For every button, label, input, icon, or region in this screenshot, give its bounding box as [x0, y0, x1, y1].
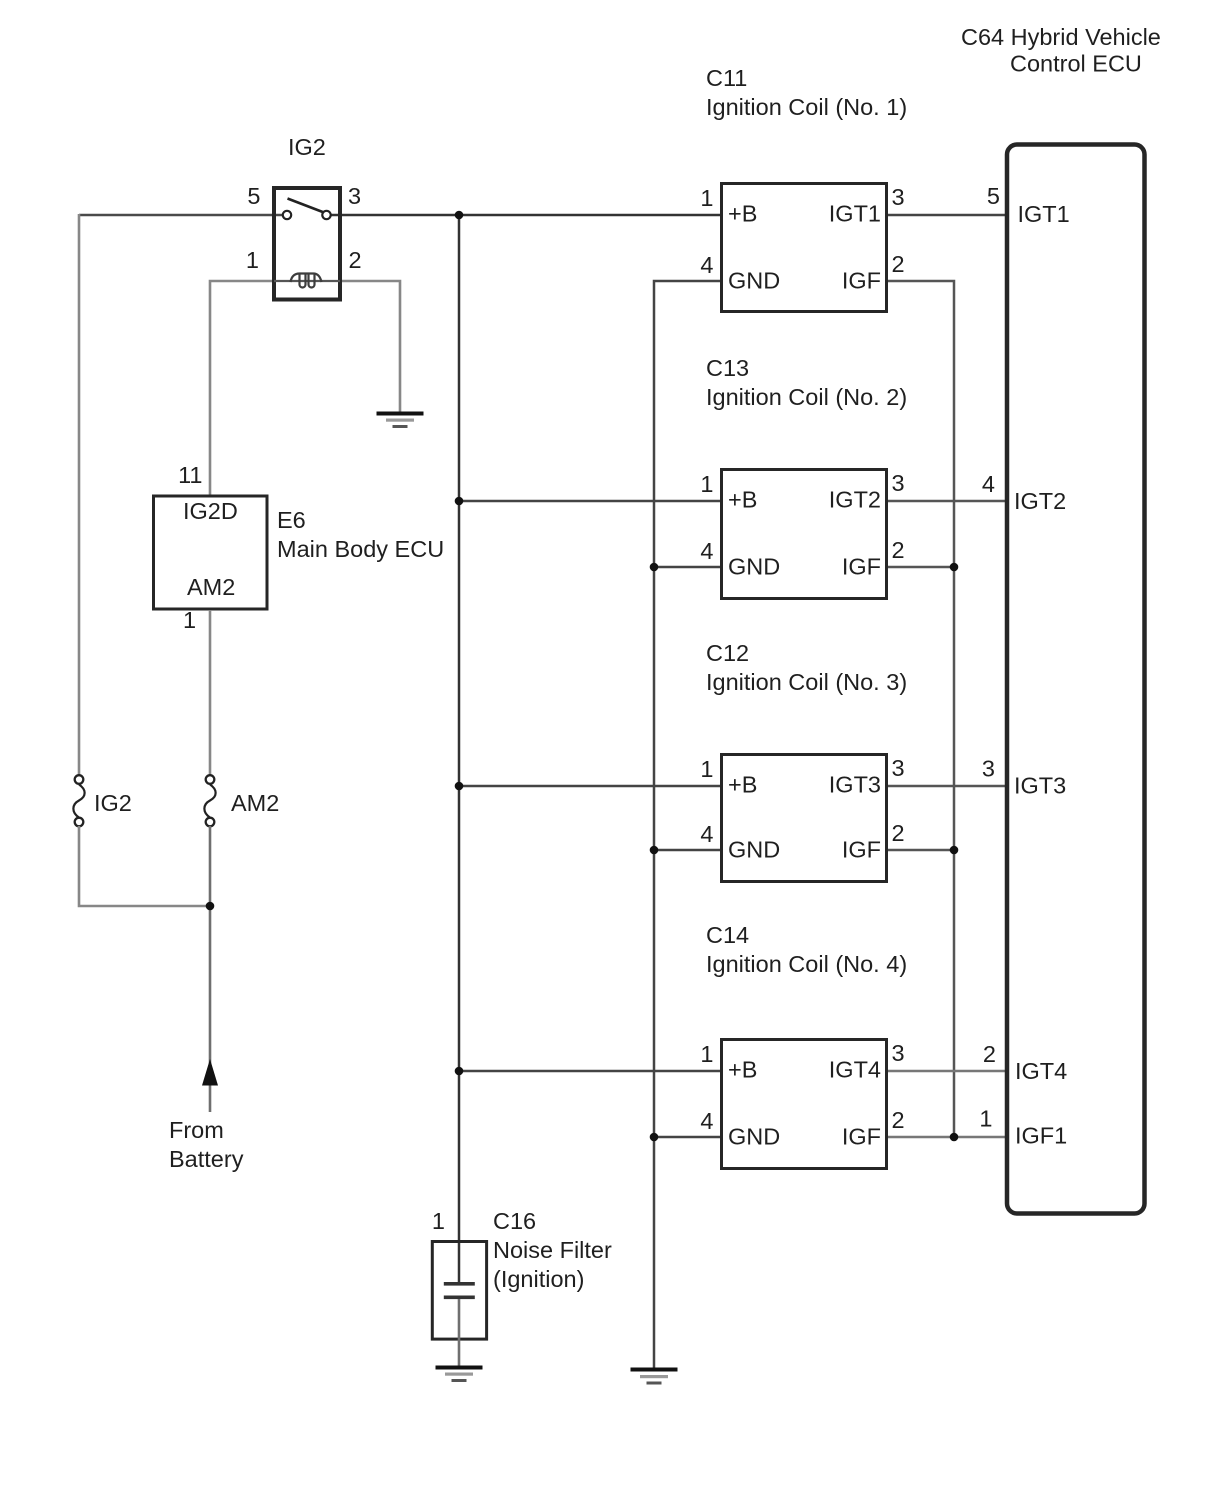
- svg-text:IGF: IGF: [842, 268, 881, 294]
- svg-text:3: 3: [982, 756, 995, 782]
- svg-text:1: 1: [432, 1208, 445, 1234]
- svg-text:Ignition Coil (No. 1): Ignition Coil (No. 1): [706, 94, 907, 120]
- svg-text:IGF: IGF: [842, 837, 881, 863]
- svg-text:IGF: IGF: [842, 1124, 881, 1150]
- junction dot battery feed: [206, 902, 215, 911]
- svg-text:IGT3: IGT3: [829, 772, 881, 798]
- svg-text:C12: C12: [706, 640, 749, 666]
- wire: relay pin 1 to E6 IG2D: [210, 281, 272, 495]
- svg-text:2: 2: [983, 1041, 996, 1067]
- ignition coil C13: [722, 470, 887, 599]
- svg-text:Ignition Coil (No. 4): Ignition Coil (No. 4): [706, 951, 907, 977]
- wire: relay coil feedthrough (pin 1 to pin 2 inside box): [274, 280, 340, 282]
- svg-text:IGT4: IGT4: [1015, 1058, 1067, 1084]
- svg-text:C64 Hybrid Vehicle: C64 Hybrid Vehicle: [961, 24, 1161, 50]
- svg-text:5: 5: [987, 183, 1000, 209]
- wire: top feed from left rail corner to relay pin 5: [79, 214, 282, 217]
- wire: C14 IGT4 to ECU pin 2: [888, 1070, 1007, 1073]
- wire: E6 AM2 pin down to fuse AM2: [209, 610, 212, 776]
- wire: left rail down to fuse IG2: [78, 214, 81, 776]
- svg-text:IGT2: IGT2: [1014, 488, 1066, 514]
- wire: C14 IGF / IGF1 to ECU pin 1: [888, 1136, 1007, 1139]
- svg-text:3: 3: [892, 755, 905, 781]
- junction dot ground bus C13: [650, 563, 659, 572]
- junction dot ground bus C12: [650, 846, 659, 855]
- svg-text:C16: C16: [493, 1208, 536, 1234]
- node: +B bus (main vertical): [458, 215, 461, 1284]
- ignition coil C11: [722, 184, 887, 312]
- svg-text:Noise Filter: Noise Filter: [493, 1237, 612, 1263]
- svg-text:AM2: AM2: [187, 574, 235, 600]
- svg-text:1: 1: [700, 756, 713, 782]
- svg-text:E6: E6: [277, 507, 306, 533]
- svg-text:+B: +B: [728, 487, 757, 513]
- svg-text:3: 3: [892, 1040, 905, 1066]
- junction dot IGF bus C13: [950, 563, 959, 572]
- capacitor C16 bottom plate: [444, 1296, 475, 1300]
- svg-text:4: 4: [982, 471, 995, 497]
- svg-text:(Ignition): (Ignition): [493, 1266, 584, 1292]
- svg-text:IGT1: IGT1: [1018, 201, 1070, 227]
- svg-text:IGT4: IGT4: [829, 1057, 881, 1083]
- wire: C12 IGF to IGF bus: [888, 849, 954, 852]
- svg-text:4: 4: [700, 1108, 713, 1134]
- wire: relay pin 2 to ground: [342, 281, 400, 412]
- svg-text:IG2D: IG2D: [183, 498, 238, 524]
- svg-text:5: 5: [247, 183, 260, 209]
- capacitor C16 top plate: [444, 1282, 475, 1286]
- Main Body ECU E6 box: [154, 496, 268, 609]
- svg-text:Ignition Coil (No. 3): Ignition Coil (No. 3): [706, 669, 907, 695]
- wire: C12 IGT3 to ECU pin 3: [888, 785, 1007, 788]
- junction dot IGF bus C14: [950, 1133, 959, 1142]
- junction dot +B bus C12: [455, 782, 464, 791]
- ground (ground bus): [631, 1368, 678, 1385]
- svg-text:AM2: AM2: [231, 790, 279, 816]
- wire: C11 GND to ground bus: [654, 281, 720, 1369]
- wire: ground bus to C13 GND: [654, 566, 720, 569]
- wire: C11 IGF to IGF bus: [888, 281, 954, 1137]
- svg-text:C14: C14: [706, 922, 749, 948]
- svg-text:Battery: Battery: [169, 1146, 244, 1172]
- wire: relay pin 3 to junction and on to C11 +B: [331, 214, 720, 217]
- svg-text:1: 1: [246, 247, 259, 273]
- svg-text:IGT1: IGT1: [829, 201, 881, 227]
- svg-text:2: 2: [892, 251, 905, 277]
- svg-text:4: 4: [700, 538, 713, 564]
- svg-text:1: 1: [700, 185, 713, 211]
- ignition coil C12: [722, 755, 887, 882]
- svg-text:2: 2: [349, 247, 362, 273]
- wire: C13 IGF to IGF bus: [888, 566, 954, 569]
- svg-text:GND: GND: [728, 1124, 780, 1150]
- connector C64 Hybrid Vehicle Control ECU: [1007, 145, 1145, 1214]
- svg-text:IGF1: IGF1: [1015, 1123, 1067, 1149]
- wire: C13 IGT2 to ECU pin 4: [888, 500, 1007, 503]
- svg-text:GND: GND: [728, 554, 780, 580]
- svg-text:IG2: IG2: [288, 134, 326, 160]
- fuse IG2: [73, 775, 84, 826]
- svg-text:4: 4: [700, 821, 713, 847]
- svg-text:2: 2: [892, 537, 905, 563]
- junction dot at relay output / +B bus: [455, 211, 464, 220]
- svg-text:IGT3: IGT3: [1014, 773, 1066, 799]
- svg-text:2: 2: [892, 1107, 905, 1133]
- wire: +B bus to C13: [459, 500, 720, 503]
- wire: ground bus to C12 GND: [654, 849, 720, 852]
- svg-text:+B: +B: [728, 201, 757, 227]
- relay IG2: [274, 188, 340, 300]
- wire: +B bus to C12: [459, 785, 720, 788]
- svg-text:1: 1: [700, 1041, 713, 1067]
- svg-text:1: 1: [700, 471, 713, 497]
- arrow from battery: [202, 1059, 218, 1086]
- ignition coil C14: [722, 1040, 887, 1169]
- svg-text:From: From: [169, 1117, 224, 1143]
- ground (relay IG2 coil): [377, 412, 424, 429]
- svg-text:1: 1: [183, 607, 196, 633]
- svg-text:Control ECU: Control ECU: [1010, 51, 1142, 77]
- svg-text:IGF: IGF: [842, 554, 881, 580]
- relay IG2 switch blade: [288, 199, 325, 213]
- svg-text:+B: +B: [728, 1057, 757, 1083]
- svg-text:IG2: IG2: [94, 790, 132, 816]
- svg-text:+B: +B: [728, 772, 757, 798]
- svg-text:GND: GND: [728, 837, 780, 863]
- svg-text:2: 2: [892, 820, 905, 846]
- svg-text:3: 3: [892, 470, 905, 496]
- svg-text:GND: GND: [728, 268, 780, 294]
- wire: fuse AM2 down to battery feed: [209, 826, 212, 1112]
- svg-text:Main Body ECU: Main Body ECU: [277, 536, 444, 562]
- svg-text:C11: C11: [706, 65, 747, 91]
- junction dot +B bus C13: [455, 497, 464, 506]
- svg-text:3: 3: [892, 184, 905, 210]
- wire: C16 lower plate to ground: [458, 1299, 461, 1366]
- svg-text:1: 1: [979, 1106, 992, 1132]
- junction dot +B bus C14: [455, 1067, 464, 1076]
- svg-text:11: 11: [178, 462, 202, 488]
- svg-text:C13: C13: [706, 355, 749, 381]
- junction dot ground bus C14: [650, 1133, 659, 1142]
- svg-text:Ignition Coil (No. 2): Ignition Coil (No. 2): [706, 384, 907, 410]
- junction dot IGF bus C12: [950, 846, 959, 855]
- ground (C16): [436, 1366, 483, 1383]
- svg-text:4: 4: [700, 252, 713, 278]
- fuse AM2: [204, 775, 215, 826]
- relay IG2 switch contact circle (pin 3 side): [322, 211, 330, 219]
- relay IG2 switch contact circle (pin 5 side): [283, 211, 291, 219]
- wire: ground bus to C14 GND: [654, 1136, 720, 1139]
- wire: +B bus to C14: [459, 1070, 720, 1073]
- svg-text:IGT2: IGT2: [829, 487, 881, 513]
- wire: C11 IGT1 to ECU pin 5: [888, 214, 1007, 217]
- relay IG2 coil: [291, 274, 322, 288]
- wire: fuse IG2 to battery junction: [79, 826, 210, 906]
- svg-text:3: 3: [348, 183, 361, 209]
- noise filter C16 box: [432, 1242, 486, 1340]
